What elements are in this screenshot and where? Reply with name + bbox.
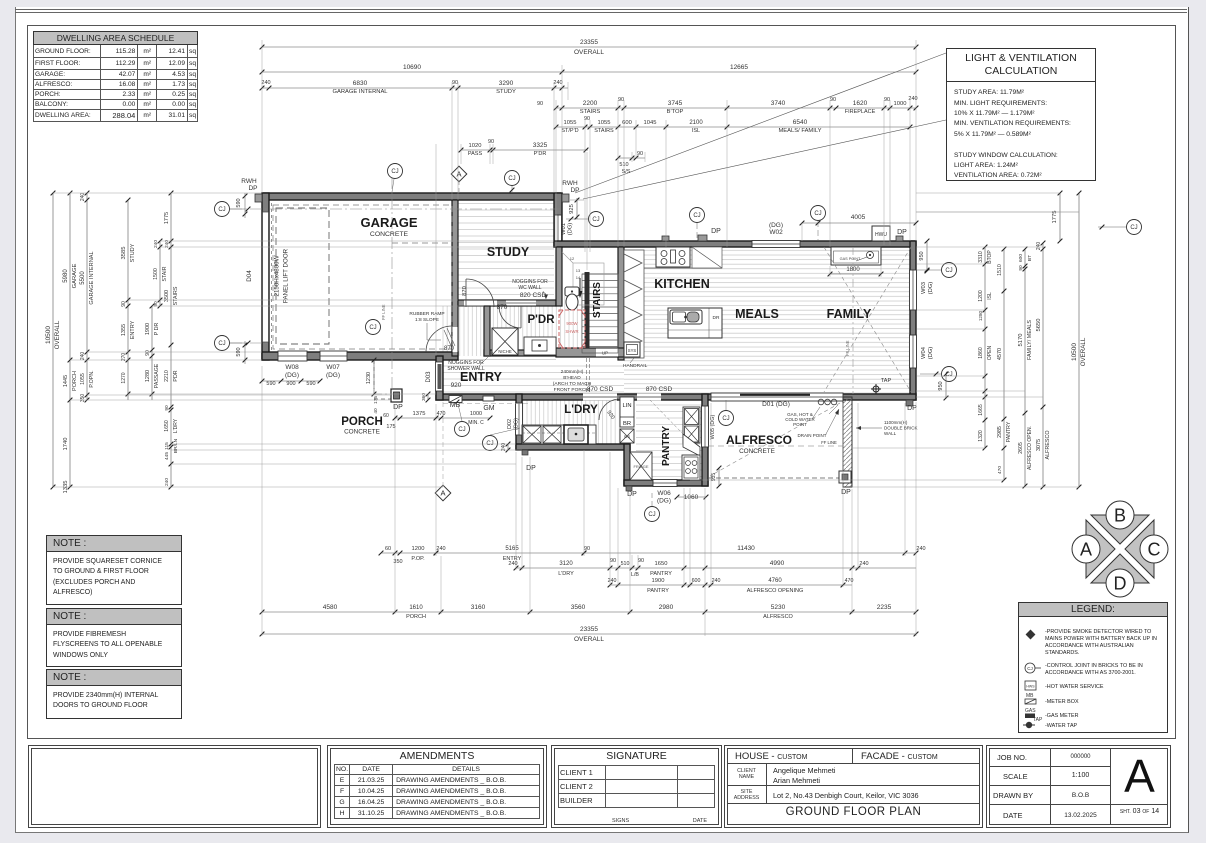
svg-text:1775: 1775 <box>1052 211 1058 224</box>
svg-text:W06: W06 <box>657 490 671 497</box>
wc nook floor hatch <box>556 288 584 354</box>
pdr west wall <box>484 306 490 356</box>
svg-text:CJ: CJ <box>218 341 225 347</box>
svg-text:DR: DR <box>713 315 720 321</box>
svg-text:LIN: LIN <box>622 403 631 409</box>
alfresco mid dashed line <box>708 445 843 447</box>
svg-text:5165: 5165 <box>505 546 519 552</box>
svg-text:1100mm(H): 1100mm(H) <box>884 420 908 425</box>
svg-text:B: B <box>1114 506 1126 526</box>
svg-text:5650: 5650 <box>1036 319 1042 332</box>
svg-text:A: A <box>440 489 445 498</box>
alfresco DP box <box>839 471 851 483</box>
svg-text:11430: 11430 <box>737 545 755 552</box>
window W07 <box>320 351 347 361</box>
svg-text:BT: BT <box>1027 255 1033 261</box>
svg-text:W02: W02 <box>769 229 783 236</box>
svg-text:90: 90 <box>1018 265 1024 271</box>
svg-text:FRONT PORCH): FRONT PORCH) <box>554 387 591 393</box>
svg-text:2235: 2235 <box>877 604 892 611</box>
svg-text:1055: 1055 <box>80 373 86 385</box>
svg-text:PANTRY: PANTRY <box>661 426 672 466</box>
svg-text:PASSAGE: PASSAGE <box>154 363 160 388</box>
svg-text:W01: W01 <box>561 223 567 235</box>
garage top exterior wall <box>262 193 562 200</box>
svg-text:3160: 3160 <box>471 604 486 611</box>
svg-text:DRAIN POINT: DRAIN POINT <box>797 433 826 438</box>
svg-text:HWU: HWU <box>875 232 887 238</box>
svg-text:5500: 5500 <box>80 271 86 285</box>
svg-text:90: 90 <box>121 301 127 307</box>
dp sq rwh right <box>562 194 569 202</box>
svg-text:950: 950 <box>919 251 925 260</box>
dim 590 900 590 <box>262 380 320 382</box>
svg-text:OVERALL: OVERALL <box>1080 337 1087 366</box>
pdr red shower setout <box>559 310 585 348</box>
svg-text:4570: 4570 <box>997 348 1003 360</box>
svg-text:3740: 3740 <box>771 100 786 107</box>
study door gap <box>464 301 497 306</box>
svg-text:600: 600 <box>622 120 632 126</box>
svg-text:40: 40 <box>373 408 379 414</box>
bottom dims row C <box>610 584 852 586</box>
ss dim <box>618 157 645 159</box>
svg-text:90: 90 <box>452 80 458 86</box>
svg-text:590: 590 <box>306 381 315 387</box>
svg-text:1800: 1800 <box>846 267 860 273</box>
pantry dashed diag <box>650 400 683 434</box>
svg-text:PANTRY: PANTRY <box>1006 421 1012 442</box>
svg-text:S/S: S/S <box>622 169 631 175</box>
dp sq pantry <box>626 486 632 491</box>
csd door gap 2 <box>637 394 661 401</box>
svg-text:5230: 5230 <box>771 604 786 611</box>
svg-text:240mm(H): 240mm(H) <box>561 369 584 375</box>
cooktop <box>656 247 690 267</box>
dp sq rwh left <box>255 194 262 202</box>
svg-text:90: 90 <box>637 151 643 157</box>
cj 925 dim <box>576 198 578 219</box>
svg-text:CJ: CJ <box>218 207 225 213</box>
svg-text:10690: 10690 <box>403 64 421 71</box>
garage cj <box>366 320 381 335</box>
garage left exterior wall <box>262 193 269 360</box>
dp sq family <box>906 400 913 406</box>
stairs bottom wall <box>556 348 624 357</box>
entry west wall <box>436 356 443 400</box>
svg-text:3585: 3585 <box>121 247 127 260</box>
svg-text:D02: D02 <box>507 419 513 429</box>
svg-text:RWH: RWH <box>562 180 578 187</box>
dp sq ldry <box>522 450 528 455</box>
svg-text:2150Hx4800W: 2150Hx4800W <box>274 255 281 296</box>
alfresco right double brick wall <box>843 397 852 487</box>
svg-text:1610: 1610 <box>409 605 423 611</box>
svg-text:KITCHEN: KITCHEN <box>654 277 710 291</box>
svg-text:CJ: CJ <box>945 268 952 274</box>
svg-text:240: 240 <box>916 546 925 552</box>
svg-text:1:8 SLOPE: 1:8 SLOPE <box>415 317 439 323</box>
signature box <box>551 745 722 828</box>
cj dashdot porch h <box>374 393 392 395</box>
svg-text:23355: 23355 <box>580 39 598 46</box>
pantry floor hatch <box>636 400 702 480</box>
legend control joint symbol <box>1025 663 1035 673</box>
svg-text:(ARCH TO MACH: (ARCH TO MACH <box>553 381 592 387</box>
svg-text:W07: W07 <box>326 364 340 371</box>
svg-text:60: 60 <box>385 546 391 552</box>
kitchen bench edge <box>644 267 722 269</box>
svg-text:920: 920 <box>451 382 462 389</box>
svg-text:1055: 1055 <box>598 120 611 126</box>
svg-text:2100: 2100 <box>689 120 703 126</box>
svg-text:1665: 1665 <box>978 404 984 416</box>
svg-text:PDR: PDR <box>173 370 179 381</box>
control joint CJ <box>215 336 230 351</box>
pantry diag cabinet <box>683 434 700 456</box>
bottom dims overall <box>262 633 916 635</box>
svg-text:1320: 1320 <box>978 430 984 442</box>
svg-text:SHWR: SHWR <box>565 329 578 334</box>
stair numbers <box>570 256 631 344</box>
svg-text:1775: 1775 <box>164 212 170 224</box>
svg-text:ST/P'D: ST/P'D <box>561 128 578 134</box>
control joint CJ <box>215 202 230 217</box>
svg-text:P.OP.: P.OP. <box>411 556 425 562</box>
window W01 <box>555 215 562 243</box>
svg-text:CJ: CJ <box>814 211 821 217</box>
bottom left empty box <box>28 745 321 828</box>
svg-text:GM: GM <box>483 405 494 412</box>
niche box <box>492 328 518 355</box>
svg-text:PORCH: PORCH <box>72 371 78 391</box>
svg-text:PORCH: PORCH <box>341 416 383 428</box>
svg-text:12665: 12665 <box>730 64 748 71</box>
svg-text:DOUBLE BRICK: DOUBLE BRICK <box>884 426 918 431</box>
svg-text:SHOWER WALL: SHOWER WALL <box>447 366 485 372</box>
control joint CJ <box>505 171 520 186</box>
sys box <box>624 342 640 357</box>
pantry corner cabinet <box>630 452 652 480</box>
water point circles <box>818 399 824 405</box>
svg-text:90: 90 <box>884 97 890 103</box>
sliding door D01 <box>711 393 843 401</box>
study floor hatch <box>458 200 554 300</box>
top dim row4 <box>556 107 916 109</box>
door D03 <box>436 362 443 391</box>
ldry bottom exterior wall <box>516 444 630 450</box>
svg-text:2605: 2605 <box>1018 442 1024 454</box>
alfresco bottom dashed edge <box>708 477 843 479</box>
study door arc <box>466 279 494 307</box>
svg-text:CJ: CJ <box>693 213 700 219</box>
svg-text:90: 90 <box>584 546 590 552</box>
svg-text:STUDY: STUDY <box>130 243 136 262</box>
svg-text:1200: 1200 <box>412 546 425 552</box>
garage study divider wall <box>452 200 458 356</box>
svg-text:(DG): (DG) <box>928 282 934 295</box>
island bench <box>668 308 722 338</box>
pantry bottom exterior wall <box>624 480 708 486</box>
svg-text:5170: 5170 <box>1018 334 1024 347</box>
svg-text:600: 600 <box>692 578 701 584</box>
lin br closet <box>620 397 634 427</box>
svg-text:ALFRESCO: ALFRESCO <box>1045 430 1051 459</box>
dwelling area schedule table <box>33 31 198 122</box>
svg-text:90: 90 <box>610 558 616 564</box>
svg-text:90: 90 <box>537 101 543 107</box>
svg-text:445: 445 <box>164 452 170 460</box>
family right exterior wall <box>910 241 916 400</box>
svg-text:1650: 1650 <box>164 420 170 432</box>
svg-text:950: 950 <box>938 381 944 390</box>
pdr bottom interior wall <box>484 350 556 356</box>
svg-text:L'DRY: L'DRY <box>558 571 574 577</box>
svg-text:(DG): (DG) <box>928 347 934 360</box>
section marker A bottom <box>435 485 451 501</box>
garage door opening <box>263 212 269 342</box>
svg-text:ISL: ISL <box>692 128 700 134</box>
svg-text:240: 240 <box>261 80 270 86</box>
south wall of living band <box>436 394 916 400</box>
tap symbol <box>873 386 879 392</box>
svg-text:6540: 6540 <box>793 119 808 126</box>
window W08 <box>278 351 307 361</box>
bhead arch dashes <box>586 358 588 392</box>
svg-text:6830: 6830 <box>353 80 368 87</box>
svg-text:1045: 1045 <box>644 120 657 126</box>
legend box <box>1018 602 1168 733</box>
svg-text:1500: 1500 <box>153 268 159 280</box>
svg-text:1055: 1055 <box>564 120 577 126</box>
svg-text:D: D <box>1114 574 1127 594</box>
ldry floor hatch <box>522 400 620 444</box>
family centerline dashed <box>852 247 854 394</box>
svg-text:W08: W08 <box>285 364 299 371</box>
stairs up gap <box>596 349 618 357</box>
pantry shelf units <box>683 407 700 443</box>
svg-text:POINT: POINT <box>793 422 807 427</box>
pantry lower west wall <box>624 444 630 485</box>
svg-text:ENTRY: ENTRY <box>130 320 136 339</box>
svg-text:A: A <box>1080 540 1092 560</box>
svg-text:3745: 3745 <box>668 100 683 107</box>
svg-text:WC WALL: WC WALL <box>518 285 541 291</box>
gm box <box>483 396 494 401</box>
svg-text:CJ: CJ <box>592 217 599 223</box>
legend smoke detector symbol <box>1026 630 1036 640</box>
control joint CJ <box>388 164 403 179</box>
svg-text:L'DRY: L'DRY <box>173 418 179 433</box>
note box 3 <box>46 669 182 719</box>
job info box <box>986 745 1171 828</box>
svg-text:1445: 1445 <box>63 375 69 387</box>
svg-text:870: 870 <box>444 346 455 352</box>
svg-text:ALFRESCO: ALFRESCO <box>763 614 793 620</box>
dim 950 top <box>926 241 928 271</box>
svg-text:90: 90 <box>830 97 836 103</box>
leader to light vent box <box>575 53 946 193</box>
dim 950 bot <box>945 374 947 398</box>
svg-text:CJ: CJ <box>722 416 729 422</box>
fireplace <box>831 247 881 265</box>
window D02 <box>516 403 523 435</box>
svg-text:DP: DP <box>393 404 403 411</box>
svg-text:350: 350 <box>80 394 86 403</box>
svg-text:590: 590 <box>236 347 242 356</box>
svg-text:1650: 1650 <box>655 561 668 567</box>
svg-text:D03: D03 <box>426 371 432 383</box>
svg-text:TAP: TAP <box>881 378 892 384</box>
svg-text:870: 870 <box>497 304 508 311</box>
pantry oven unit <box>682 455 700 480</box>
svg-text:4005: 4005 <box>851 214 866 221</box>
top dim row6 <box>461 149 588 151</box>
svg-text:FRIDGE: FRIDGE <box>633 464 648 469</box>
svg-text:GARAGE: GARAGE <box>72 263 78 288</box>
light and ventilation calculation box <box>946 48 1096 181</box>
svg-text:FAMILY/ MEALS: FAMILY/ MEALS <box>1027 320 1033 360</box>
svg-text:STAIRS: STAIRS <box>580 109 601 115</box>
top dim overall <box>262 46 916 48</box>
svg-text:1375: 1375 <box>413 411 426 417</box>
svg-text:115: 115 <box>164 442 170 450</box>
svg-text:BR/LN: BR/LN <box>173 438 179 453</box>
svg-text:ALFRESCO OPEN.: ALFRESCO OPEN. <box>1027 426 1033 470</box>
svg-text:CJ: CJ <box>648 512 655 518</box>
svg-text:60: 60 <box>383 413 389 419</box>
svg-text:FF LINE: FF LINE <box>381 304 386 320</box>
svg-text:(DG): (DG) <box>326 372 340 379</box>
svg-text:CONCRETE: CONCRETE <box>739 448 775 455</box>
study right exterior wall <box>554 193 562 247</box>
svg-text:MIN. C: MIN. C <box>468 420 484 426</box>
svg-text:BR: BR <box>623 421 631 427</box>
svg-text:B'TOP: B'TOP <box>667 109 684 115</box>
svg-text:1510: 1510 <box>997 264 1003 276</box>
svg-text:CJ: CJ <box>458 427 465 433</box>
ldry ss box <box>620 429 634 443</box>
svg-text:MEALS: MEALS <box>735 307 779 321</box>
dim 4005 <box>802 222 916 224</box>
stairs kitchen divider wall <box>618 247 624 360</box>
svg-text:240: 240 <box>553 80 562 86</box>
top dim row5 <box>556 126 910 128</box>
svg-text:240: 240 <box>80 352 86 361</box>
svg-text:L'DRY: L'DRY <box>564 404 598 416</box>
svg-text:1230: 1230 <box>366 372 372 384</box>
ldry bench <box>522 425 596 444</box>
kitchen cabinets <box>624 250 644 358</box>
stair arrow <box>579 278 581 296</box>
svg-text:1860: 1860 <box>978 347 984 359</box>
svg-text:3560: 3560 <box>571 604 586 611</box>
svg-text:4760: 4760 <box>768 578 782 584</box>
svg-text:14: 14 <box>576 275 581 280</box>
control joint CJ <box>719 411 734 426</box>
garage panel door dashed <box>276 208 329 344</box>
top dim row3 <box>262 87 568 89</box>
svg-text:PANEL LIFT DOOR: PANEL LIFT DOOR <box>283 248 290 303</box>
svg-text:820 CSD: 820 CSD <box>520 292 547 299</box>
svg-text:3075: 3075 <box>1036 439 1042 451</box>
svg-text:DP: DP <box>526 465 536 472</box>
svg-text:470: 470 <box>997 466 1003 474</box>
svg-text:CJ: CJ <box>508 176 515 182</box>
svg-text:CONCRETE: CONCRETE <box>344 429 380 436</box>
dim 935 alf <box>718 468 720 486</box>
svg-text:90: 90 <box>618 97 624 103</box>
svg-text:870: 870 <box>462 286 468 296</box>
garage access door gap <box>453 327 458 352</box>
svg-text:P'DR: P'DR <box>534 151 547 157</box>
svg-text:870 CSD: 870 CSD <box>646 386 673 393</box>
legend hot water service symbol <box>1025 681 1036 690</box>
cj dashdot line h2 <box>230 342 269 344</box>
pdr door arc <box>499 306 521 328</box>
svg-text:STAIRS: STAIRS <box>173 286 179 305</box>
svg-text:3500: 3500 <box>164 290 170 302</box>
svg-text:90: 90 <box>145 350 151 356</box>
amendments box <box>327 745 547 828</box>
house / facade box <box>724 745 983 828</box>
pdr basin <box>524 337 556 355</box>
svg-text:D04: D04 <box>246 270 253 282</box>
fireplace dim 1800 <box>830 273 881 275</box>
svg-text:RUBBER RAMP: RUBBER RAMP <box>409 311 444 317</box>
svg-text:L/B: L/B <box>631 572 639 578</box>
svg-text:FAMILY: FAMILY <box>827 307 872 321</box>
pantry alfresco wall <box>702 394 708 486</box>
svg-text:925: 925 <box>569 204 575 214</box>
control joint CJ <box>942 263 957 278</box>
family dashed diagonals <box>824 247 911 392</box>
svg-text:ALFRESCO: ALFRESCO <box>726 433 792 447</box>
svg-text:C: C <box>1148 540 1161 560</box>
cj dashdot vline <box>391 177 393 389</box>
svg-text:13: 13 <box>576 268 581 273</box>
control joint CJ <box>690 208 705 223</box>
svg-text:DP: DP <box>841 489 851 496</box>
svg-text:1060: 1060 <box>684 494 699 501</box>
dim 240 ldry <box>507 444 509 450</box>
corridor floor hatch <box>556 360 624 394</box>
svg-text:1020: 1020 <box>469 143 482 149</box>
svg-text:STAIRS: STAIRS <box>592 282 603 318</box>
svg-text:CJ: CJ <box>369 325 376 331</box>
entry roof dashed <box>443 403 530 405</box>
svg-text:HANDRAIL: HANDRAIL <box>623 363 648 369</box>
svg-text:900W: 900W <box>566 321 578 326</box>
svg-text:4990: 4990 <box>770 560 785 567</box>
alfresco dashed diagonal <box>710 403 840 476</box>
svg-text:FF LINE: FF LINE <box>821 440 837 445</box>
svg-text:3325: 3325 <box>533 142 548 149</box>
svg-text:OVERALL: OVERALL <box>574 49 604 56</box>
svg-text:1740: 1740 <box>63 438 69 451</box>
svg-text:240: 240 <box>608 578 617 584</box>
svg-text:590: 590 <box>266 381 275 387</box>
garage bottom exterior wall <box>262 352 458 360</box>
svg-text:3120: 3120 <box>559 561 573 567</box>
svg-text:DP: DP <box>711 228 721 235</box>
svg-text:2980: 2980 <box>659 604 674 611</box>
svg-text:90: 90 <box>638 558 644 564</box>
cj dashdot line h1 <box>230 208 560 210</box>
svg-text:OPEN: OPEN <box>987 346 993 361</box>
study bottom interior wall <box>458 300 556 306</box>
svg-text:RWH: RWH <box>241 178 257 185</box>
